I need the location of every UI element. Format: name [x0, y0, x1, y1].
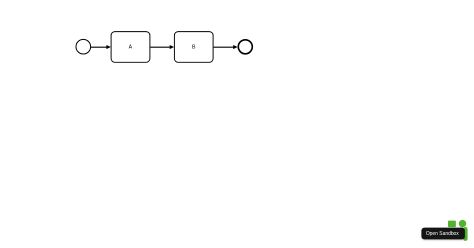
start event: [76, 39, 91, 54]
task B: [174, 32, 213, 63]
label B: [192, 45, 196, 51]
task A: [111, 32, 150, 63]
wire: start event to task A: [91, 46, 107, 48]
codesandbox logo bar: [463, 227, 467, 241]
svg-text:B: B: [192, 45, 196, 51]
arrowhead into task A: [106, 45, 110, 49]
wire: task A to task B: [150, 46, 170, 48]
wire: task B to end event: [214, 46, 234, 48]
codesandbox logo circle: [459, 220, 467, 228]
svg-text:A: A: [129, 45, 133, 51]
end event: [238, 40, 252, 54]
svg-text:Open Sandbox: Open Sandbox: [426, 231, 459, 237]
open sandbox button: [421, 228, 465, 240]
button label: [426, 231, 459, 237]
label A: [129, 45, 133, 51]
button shadow: [422, 229, 465, 241]
codesandbox logo square: [448, 221, 456, 228]
arrowhead into task B: [170, 45, 174, 49]
arrowhead into end event: [233, 45, 237, 49]
